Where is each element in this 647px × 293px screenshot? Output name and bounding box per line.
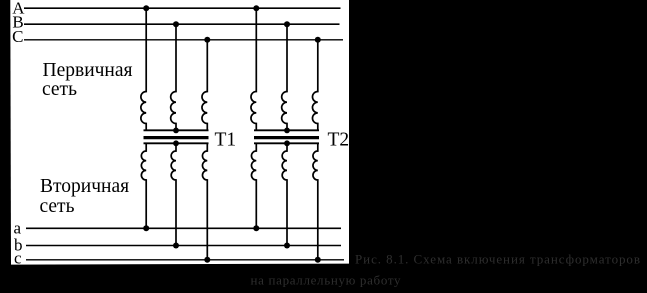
bus line B bbox=[24, 23, 340, 25]
T2 secondary winding phase c bbox=[313, 143, 318, 259]
svg-text:Рис. 8.1. Схема включения тран: Рис. 8.1. Схема включения трансформаторо… bbox=[355, 252, 640, 267]
node: dot C-T2 bbox=[315, 37, 321, 43]
svg-text:T1: T1 bbox=[215, 129, 237, 150]
T1 primary winding phase A bbox=[141, 8, 146, 130]
node: dot c-T1 bbox=[204, 257, 210, 263]
node: dot A-T1 bbox=[143, 5, 149, 11]
node: dot T1 secondary star point bbox=[173, 140, 179, 146]
bus line C bbox=[24, 39, 343, 41]
T2 primary winding phase B bbox=[282, 24, 287, 130]
white schematic panel bbox=[10, 0, 349, 265]
node: dot a-T1 bbox=[143, 225, 149, 231]
T2 primary winding phase C bbox=[312, 40, 317, 131]
node: dot T2 secondary star point bbox=[284, 140, 290, 146]
T1 core bar bbox=[144, 136, 209, 139]
bus line b bbox=[26, 245, 341, 247]
node: dot c-T2 bbox=[315, 257, 321, 263]
node: dot B-T2 bbox=[284, 21, 290, 27]
T1 secondary join bar bbox=[144, 142, 209, 144]
T2 secondary join bar bbox=[254, 142, 319, 144]
node: dot T2 primary star point bbox=[284, 127, 290, 133]
bus line a bbox=[26, 227, 341, 229]
svg-text:c: c bbox=[14, 249, 22, 268]
node: dot b-T1 bbox=[173, 243, 179, 249]
T1 secondary winding phase c bbox=[202, 143, 207, 259]
T1 primary winding phase B bbox=[171, 24, 176, 130]
node: dot B-T1 bbox=[173, 21, 179, 27]
svg-text:T2: T2 bbox=[328, 129, 350, 150]
node: dot A-T2 bbox=[253, 5, 259, 11]
T2 secondary winding phase b bbox=[282, 143, 287, 245]
T1 primary winding phase C bbox=[202, 40, 207, 131]
T2 primary join bar bbox=[254, 129, 319, 131]
T2 primary winding phase A bbox=[251, 8, 256, 130]
T1 primary join bar bbox=[144, 129, 209, 131]
T2 secondary winding phase a bbox=[251, 143, 256, 228]
svg-text:Первичная: Первичная bbox=[43, 60, 133, 81]
node: dot C-T1 bbox=[204, 37, 210, 43]
bus line c bbox=[26, 259, 344, 261]
node: dot T1 primary star point bbox=[173, 127, 179, 133]
node: dot a-T2 bbox=[253, 225, 259, 231]
svg-text:на параллельную работу: на параллельную работу bbox=[251, 273, 402, 288]
node: dot b-T2 bbox=[284, 243, 290, 249]
T1 secondary winding phase b bbox=[171, 143, 176, 245]
svg-text:Вторичная: Вторичная bbox=[40, 176, 129, 197]
svg-text:C: C bbox=[12, 27, 23, 46]
bus line A bbox=[24, 7, 341, 9]
svg-text:сеть: сеть bbox=[42, 79, 77, 100]
T2 core bar bbox=[254, 136, 319, 139]
svg-text:сеть: сеть bbox=[40, 196, 75, 217]
T1 secondary winding phase a bbox=[141, 143, 146, 228]
